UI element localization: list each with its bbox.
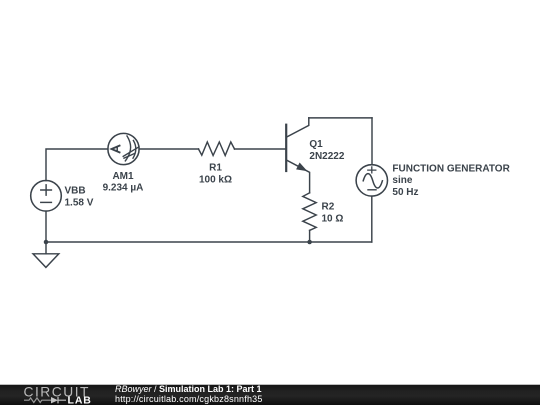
- wire R1 to Q1 base: [235, 148, 287, 150]
- wire R2 to bottom rail: [309, 230, 311, 242]
- footer bar: [0, 384, 540, 405]
- svg-text:FUNCTION GENERATOR: FUNCTION GENERATOR: [392, 163, 510, 174]
- logo diode: [51, 397, 58, 403]
- transistor Q1 collector lead: [287, 118, 309, 137]
- svg-text:LAB: LAB: [68, 394, 92, 405]
- svg-text:1.58 V: 1.58 V: [65, 197, 94, 208]
- ammeter AM1 needle: [123, 147, 139, 158]
- ammeter AM1 circle: [108, 133, 139, 164]
- wire function generator to bottom rail: [371, 196, 373, 242]
- transistor Q1 base bar: [285, 125, 287, 171]
- junction dot right: [307, 240, 312, 245]
- svg-text:AM1: AM1: [112, 171, 134, 182]
- svg-text:VBB: VBB: [65, 186, 86, 197]
- function generator sine wave: [363, 174, 382, 188]
- ammeter AM1 meter arcs: [125, 136, 136, 161]
- wire top-left from VBB up and right to ammeter: [46, 149, 108, 181]
- logo wire with resistor: [24, 398, 51, 403]
- function generator minus sign: [368, 189, 376, 191]
- resistor R2 zigzag: [303, 193, 316, 231]
- voltage source VBB circle: [31, 181, 62, 212]
- ammeter AM1 letter A: [112, 145, 121, 152]
- transistor Q1 emitter lead: [287, 160, 310, 193]
- wire right rail down to function generator: [371, 118, 373, 165]
- svg-text:sine: sine: [392, 175, 412, 186]
- voltage source VBB minus sign: [41, 201, 52, 203]
- resistor R1 zigzag: [199, 142, 235, 156]
- svg-text:R1: R1: [209, 163, 222, 174]
- ground symbol triangle: [33, 254, 59, 268]
- svg-text:2N2222: 2N2222: [309, 151, 344, 162]
- function generator V1 circle: [356, 165, 387, 196]
- wire collector to top-right corner: [309, 117, 372, 119]
- wire VBB to ground junction: [45, 211, 47, 242]
- svg-text:10 Ω: 10 Ω: [322, 213, 344, 224]
- credit text: [115, 385, 263, 404]
- svg-text:Q1: Q1: [309, 139, 323, 150]
- bottom rail wire: [46, 241, 372, 243]
- junction dot left: [44, 240, 49, 245]
- svg-text:50 Hz: 50 Hz: [392, 187, 418, 198]
- CircuitLab logo: [22, 384, 102, 405]
- voltage source VBB plus sign: [41, 185, 52, 195]
- function generator plus sign: [368, 167, 376, 173]
- svg-text:R2: R2: [322, 202, 335, 213]
- svg-text:9.234 µA: 9.234 µA: [103, 183, 144, 194]
- transistor Q1 emitter arrow: [297, 163, 307, 170]
- wire ammeter to R1: [139, 148, 198, 150]
- wire junction to ground symbol: [45, 242, 47, 254]
- svg-text:100 kΩ: 100 kΩ: [199, 174, 232, 185]
